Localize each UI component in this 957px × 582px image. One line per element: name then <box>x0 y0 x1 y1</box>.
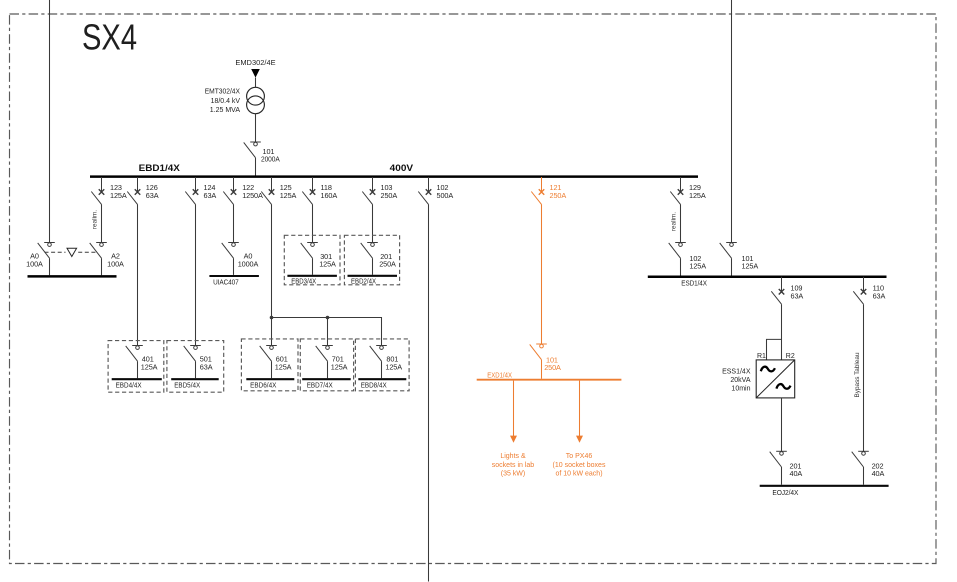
svg-text:63A: 63A <box>200 362 213 371</box>
svg-text:125A: 125A <box>319 260 336 269</box>
wire feeder 102 down offpage <box>428 204 430 581</box>
svg-text:20kVA: 20kVA <box>730 377 750 384</box>
wire feeder 129 down <box>680 204 682 242</box>
resistor bypass loop R1 R2 <box>757 339 795 360</box>
panel box EBD7/4X <box>300 339 353 391</box>
wire feeder 122 down <box>233 204 235 242</box>
svg-text:R2: R2 <box>786 353 795 360</box>
svg-text:R1: R1 <box>757 353 766 360</box>
breaker 103 250A <box>362 177 397 204</box>
svg-text:EXD1/4X: EXD1/4X <box>487 372 512 379</box>
UPS ESS1/4X <box>722 360 795 398</box>
switch 102 125A <box>669 243 707 276</box>
wire transformer to breaker <box>255 114 257 142</box>
bus EBD4/4X <box>112 379 162 390</box>
svg-text:EBD2/4X: EBD2/4X <box>351 278 376 285</box>
svg-text:18/0.4 kV: 18/0.4 kV <box>211 98 241 105</box>
breaker 109 63A <box>771 277 803 304</box>
svg-text:realim.: realim. <box>91 210 98 229</box>
svg-text:realim.: realim. <box>670 212 677 231</box>
svg-text:63A: 63A <box>204 191 217 200</box>
switch A2 100A <box>90 243 124 276</box>
wire incoming right from top <box>731 0 733 243</box>
svg-text:63A: 63A <box>791 291 804 300</box>
bus EXD1/4X (orange) <box>477 372 622 379</box>
node J2 <box>326 316 330 320</box>
switch 202 40A <box>852 451 885 484</box>
breaker 129 125A <box>670 177 706 204</box>
svg-text:100A: 100A <box>26 259 43 268</box>
switch 701 125A <box>316 346 348 379</box>
panel box EBD4/4X <box>108 341 164 393</box>
bus EBD3/4X <box>287 276 337 286</box>
svg-text:40A: 40A <box>872 469 885 478</box>
breaker 121 250A <box>531 177 566 204</box>
node J1 <box>270 316 274 320</box>
breaker 102 500A <box>418 177 453 204</box>
panel box EBD2/4X <box>344 235 399 284</box>
wire feeder 125 down <box>271 204 273 345</box>
breaker 126 63A <box>127 177 158 204</box>
bus EOJ2/4X <box>760 486 889 497</box>
svg-text:(35 kW): (35 kW) <box>501 470 526 477</box>
wire link to EBD7 EBD8 <box>272 318 382 346</box>
svg-text:125A: 125A <box>331 362 348 371</box>
svg-text:EBD5/4X: EBD5/4X <box>174 383 200 390</box>
switch 301 125A <box>301 243 336 275</box>
svg-text:10min: 10min <box>731 386 750 393</box>
transformer EMT302/4X <box>205 87 265 114</box>
panel box EBD8/4X <box>355 339 409 391</box>
bus EBD2/4X <box>348 276 398 286</box>
wire 109 to UPS <box>781 304 783 360</box>
interlock between A0 and A2 <box>45 248 98 256</box>
panel box EBD6/4X <box>241 339 298 391</box>
svg-text:250A: 250A <box>379 260 396 269</box>
bus EBD6/4X <box>246 379 294 390</box>
svg-text:1000A: 1000A <box>238 259 259 268</box>
bus EBD8/4X <box>358 379 406 390</box>
wire feeder 121 down (orange) <box>541 204 543 344</box>
incoming feed EMD302/4E <box>235 60 276 87</box>
svg-text:SX4: SX4 <box>82 17 137 58</box>
wire feeder 126 down <box>137 204 139 345</box>
svg-text:EMT302/4X: EMT302/4X <box>205 89 241 96</box>
svg-text:125A: 125A <box>689 262 706 271</box>
bus left A0/A2 <box>28 275 117 278</box>
svg-text:160A: 160A <box>321 191 338 200</box>
breaker 124 63A <box>185 177 216 204</box>
svg-text:UIAC407: UIAC407 <box>213 277 239 286</box>
bus EBD1/4X 400V <box>90 163 698 177</box>
svg-text:250A: 250A <box>544 363 561 372</box>
svg-text:63A: 63A <box>146 191 159 200</box>
svg-text:To PX46: To PX46 <box>566 453 593 460</box>
panel box EBD3/4X <box>284 235 340 284</box>
switch 201 40A <box>770 451 803 484</box>
svg-text:250A: 250A <box>550 191 567 200</box>
svg-text:EMD302/4E: EMD302/4E <box>235 60 276 67</box>
svg-text:EBD7/4X: EBD7/4X <box>307 383 333 390</box>
wire bypass 110 down <box>863 304 865 451</box>
breaker 123 125A <box>91 177 127 204</box>
breaker 101 2000A <box>244 142 280 176</box>
wire feeder 118 down <box>312 204 314 242</box>
svg-text:EBD1/4X: EBD1/4X <box>139 163 181 173</box>
svg-text:125A: 125A <box>275 362 292 371</box>
switch 201 250A <box>361 243 396 275</box>
svg-text:125A: 125A <box>110 191 127 200</box>
svg-text:125A: 125A <box>385 362 402 371</box>
svg-text:EBD8/4X: EBD8/4X <box>361 383 387 390</box>
svg-text:EOJ2/4X: EOJ2/4X <box>772 488 798 497</box>
svg-text:of 10 kW each): of 10 kW each) <box>555 470 602 477</box>
switch 601 125A <box>260 346 292 379</box>
svg-text:EBD3/4X: EBD3/4X <box>291 278 316 285</box>
svg-text:125A: 125A <box>742 262 759 271</box>
switch A0 100A <box>26 243 55 276</box>
wire UPS to switch 201 <box>781 398 783 451</box>
panel box EBD5/4X <box>167 341 224 393</box>
load arrow lights <box>492 381 535 478</box>
svg-text:EBD6/4X: EBD6/4X <box>250 383 277 390</box>
breaker 110 63A <box>853 277 885 304</box>
wire feeder 103 down <box>372 204 374 242</box>
svg-text:ESD1/4X: ESD1/4X <box>681 279 707 288</box>
svg-text:100A: 100A <box>107 259 124 268</box>
svg-text:40A: 40A <box>790 469 803 478</box>
svg-text:125A: 125A <box>141 362 158 371</box>
svg-text:sockets in lab: sockets in lab <box>492 462 535 469</box>
svg-text:Lights &: Lights & <box>500 453 526 460</box>
breaker 122 1250A <box>223 177 263 204</box>
svg-text:1250A: 1250A <box>242 191 263 200</box>
bus ESD1/4X <box>648 277 887 288</box>
breaker 125 125A <box>261 177 296 204</box>
load arrow PX46 <box>553 381 606 478</box>
switch 101 250A (orange) <box>530 344 561 379</box>
switch 801 125A <box>370 346 403 379</box>
svg-text:1.25 MVA: 1.25 MVA <box>210 107 241 114</box>
svg-text:125A: 125A <box>689 191 706 200</box>
bus EBD5/4X <box>171 379 219 390</box>
switch A0 1000A <box>222 243 259 275</box>
wire incoming left from top <box>49 0 51 243</box>
svg-text:125A: 125A <box>280 191 297 200</box>
switch 501 63A <box>184 346 213 379</box>
svg-text:EBD4/4X: EBD4/4X <box>116 383 142 390</box>
svg-text:ESS1/4X: ESS1/4X <box>722 369 751 376</box>
svg-text:Bypass Tableau: Bypass Tableau <box>854 352 861 397</box>
breaker 118 160A <box>302 177 337 204</box>
svg-text:500A: 500A <box>437 191 454 200</box>
svg-text:63A: 63A <box>873 291 886 300</box>
bus EBD7/4X <box>302 379 351 390</box>
svg-text:2000A: 2000A <box>261 155 280 164</box>
switch 101 125A <box>720 243 759 276</box>
switch 401 125A <box>126 346 158 379</box>
bus UIAC407 <box>209 276 259 286</box>
svg-text:(10 socket boxes: (10 socket boxes <box>553 462 606 469</box>
wire feeder 123 down <box>101 204 103 242</box>
svg-text:400V: 400V <box>390 163 414 173</box>
svg-text:250A: 250A <box>381 191 398 200</box>
wire feeder 124 down <box>195 204 197 345</box>
